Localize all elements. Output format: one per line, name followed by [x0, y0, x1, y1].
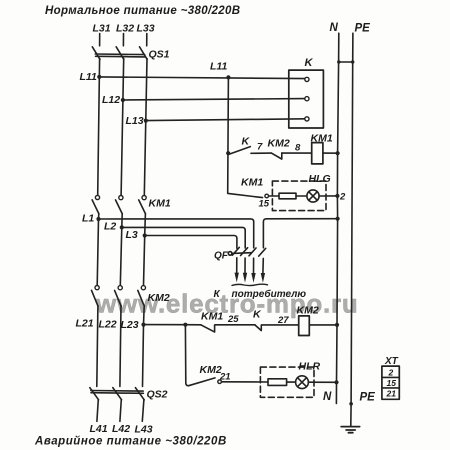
svg-text:PE: PE	[355, 23, 371, 35]
svg-text:L23: L23	[121, 319, 139, 331]
svg-text:KM1: KM1	[149, 198, 171, 210]
svg-text:Нормальное питание ~380/220В: Нормальное питание ~380/220В	[45, 5, 240, 17]
svg-text:N: N	[323, 391, 332, 403]
svg-text:L13: L13	[126, 115, 144, 127]
svg-text:Аварийное питание ~380/220В: Аварийное питание ~380/220В	[34, 436, 227, 448]
svg-text:К: К	[214, 289, 221, 300]
svg-text:L3: L3	[126, 229, 138, 241]
svg-text:KM2: KM2	[200, 364, 222, 376]
svg-text:25: 25	[227, 314, 239, 325]
svg-text:15: 15	[259, 199, 270, 210]
svg-text:L11: L11	[80, 71, 97, 83]
svg-text:27: 27	[277, 315, 289, 326]
svg-text:L43: L43	[135, 424, 153, 436]
svg-text:L2: L2	[104, 221, 116, 233]
svg-text:7: 7	[257, 142, 263, 153]
svg-text:L31: L31	[93, 23, 111, 35]
svg-text:HLR: HLR	[299, 361, 321, 373]
svg-text:L22: L22	[99, 319, 117, 331]
svg-text:L1: L1	[82, 213, 94, 225]
svg-text:L41: L41	[90, 423, 108, 435]
svg-text:KM1: KM1	[241, 177, 263, 189]
svg-text:потребителю: потребителю	[232, 288, 307, 300]
svg-text:KM1: KM1	[311, 133, 333, 145]
svg-text:L21: L21	[76, 318, 94, 330]
svg-text:QS2: QS2	[147, 389, 168, 401]
svg-text:L32: L32	[116, 23, 134, 35]
svg-text:HLG: HLG	[309, 173, 331, 185]
svg-text:www.electro-mpo.ru: www.electro-mpo.ru	[95, 289, 358, 319]
svg-text:21: 21	[386, 389, 397, 399]
svg-text:8: 8	[295, 143, 301, 154]
svg-text:2: 2	[388, 368, 394, 378]
svg-text:15: 15	[387, 378, 397, 388]
svg-text:2: 2	[339, 192, 346, 203]
svg-text:XT: XT	[384, 356, 399, 367]
svg-text:N: N	[330, 22, 339, 34]
svg-text:KM2: KM2	[268, 138, 290, 150]
svg-text:KM2: KM2	[297, 305, 319, 317]
svg-text:QS1: QS1	[149, 49, 170, 61]
svg-text:L12: L12	[102, 94, 120, 106]
svg-text:21: 21	[219, 372, 231, 383]
svg-text:K: K	[305, 57, 314, 69]
svg-text:KM2: KM2	[148, 292, 170, 304]
svg-text:L33: L33	[137, 23, 155, 35]
svg-text:L11: L11	[210, 61, 227, 73]
svg-text:L42: L42	[112, 423, 130, 435]
svg-text:PE: PE	[360, 392, 376, 404]
svg-text:QF: QF	[214, 251, 229, 262]
svg-text:KM1: KM1	[201, 311, 223, 323]
